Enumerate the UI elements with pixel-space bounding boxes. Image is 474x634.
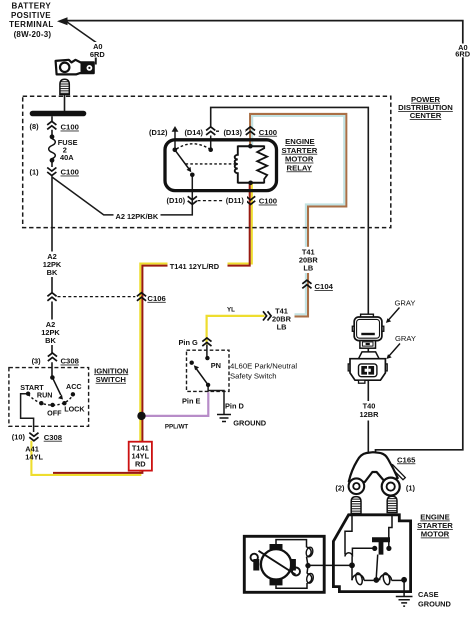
svg-text:C100: C100	[61, 168, 79, 177]
relay arm arrowhead	[187, 167, 192, 172]
svg-text:ENGINE: ENGINE	[285, 137, 314, 146]
battery terminal stud	[60, 79, 69, 94]
connector C100 pin 1 chevrons	[47, 168, 56, 176]
svg-text:PPL/WT: PPL/WT	[165, 424, 189, 431]
svg-text:LB: LB	[303, 263, 313, 272]
label (D11)	[223, 195, 248, 205]
relay coil bottom edge	[238, 182, 264, 184]
svg-text:SWITCH: SWITCH	[96, 375, 127, 384]
field coil wire mid	[307, 557, 309, 574]
solenoid contact feed	[352, 548, 373, 562]
PN switch arm	[197, 369, 209, 385]
brush hook lower-right	[292, 568, 300, 576]
power distribution center dashed box	[23, 96, 391, 227]
label A2 12PK/BK	[114, 211, 161, 221]
label T41 20BR LB upper	[296, 247, 321, 273]
arrow battery callout	[57, 17, 68, 25]
svg-text:C308: C308	[44, 433, 63, 442]
label (10) C308	[12, 432, 63, 441]
wire T40 12BR	[211, 107, 369, 456]
relay coil loops left branch	[235, 146, 238, 184]
svg-text:C308: C308	[61, 357, 80, 366]
ground symbol case	[396, 597, 413, 607]
battery clamp icon	[56, 58, 96, 75]
wire motor to solenoid	[308, 564, 352, 566]
relay switch arm	[175, 150, 189, 169]
node PN top contact	[205, 356, 209, 360]
svg-text:LB: LB	[277, 322, 287, 331]
svg-text:(1): (1)	[30, 167, 40, 176]
svg-text:FUSE: FUSE	[58, 138, 78, 147]
label A2 12PK BK lower	[41, 320, 61, 346]
gray connector lower	[348, 352, 387, 383]
connector C100 D13 chevrons	[246, 127, 255, 135]
svg-text:(10): (10)	[12, 432, 26, 441]
solenoid right stud feed	[389, 515, 392, 547]
wire T41 LB light blue stripe upper	[252, 116, 344, 248]
svg-text:BK: BK	[47, 268, 58, 277]
motor diagonal shaft	[259, 551, 296, 575]
svg-text:A2 12PK/BK: A2 12PK/BK	[116, 212, 159, 221]
svg-text:40A: 40A	[60, 153, 74, 162]
solenoid winding left	[352, 574, 364, 580]
wire relay D14 pin to contact	[210, 136, 212, 150]
svg-text:C104: C104	[315, 282, 334, 291]
node solenoid winding center	[373, 577, 379, 583]
field coil lower pair	[307, 574, 312, 583]
case ground wire	[403, 580, 405, 596]
relay dashed actuator link	[186, 163, 236, 165]
svg-text:BK: BK	[45, 336, 56, 345]
motor bottom return wire	[276, 583, 307, 588]
node solenoid left contact	[372, 546, 377, 551]
label A0 6RD battery	[87, 42, 107, 59]
svg-text:POSITIVE: POSITIVE	[11, 11, 51, 20]
label battery positive terminal	[9, 2, 54, 39]
svg-text:STARTER: STARTER	[282, 146, 318, 155]
svg-text:6RD: 6RD	[455, 49, 470, 58]
node arm contact	[190, 173, 195, 178]
solenoid bump coil	[345, 553, 352, 557]
wire T141 12YL/RD red stripe	[53, 183, 250, 473]
label (1) C100	[30, 167, 79, 176]
connector C100 D11 chevrons	[246, 196, 255, 204]
wire A0 diagonal to battery clamp	[67, 22, 97, 65]
svg-text:14YL: 14YL	[25, 452, 43, 461]
node solenoid right contact	[386, 546, 391, 551]
label FUSE 2 40A	[58, 138, 78, 162]
solenoid winding right	[380, 574, 392, 580]
motor housing	[244, 536, 324, 592]
wire T141 12YL/RD yellow stripe	[31, 183, 251, 475]
svg-text:(D14): (D14)	[184, 128, 203, 137]
svg-text:GROUND: GROUND	[233, 418, 267, 427]
node fuse bottom	[50, 158, 55, 163]
solenoid T plunger	[372, 537, 390, 554]
ignition arm arrowhead	[58, 395, 63, 400]
arrow GRAY upper	[386, 308, 400, 323]
node solenoid junction	[349, 562, 355, 568]
node ignition common	[50, 375, 55, 380]
svg-text:(3): (3)	[32, 356, 42, 365]
starter stud right	[387, 496, 397, 512]
label (3) C308	[32, 356, 80, 365]
wire A0 6RD top run	[66, 21, 463, 457]
node D14 contact	[208, 147, 213, 152]
svg-text:RD: RD	[135, 460, 146, 469]
label (8) C100	[30, 122, 79, 131]
node START	[26, 392, 30, 396]
svg-text:Pin D: Pin D	[225, 402, 245, 411]
node fuse top	[50, 134, 55, 139]
brush hook upper-left	[251, 554, 258, 561]
svg-text:T141 12YL/RD: T141 12YL/RD	[170, 262, 220, 271]
wire Pin E purple link inside box	[207, 385, 209, 392]
wire PPL/WT purple	[142, 392, 209, 416]
svg-text:Pin E: Pin E	[182, 397, 201, 406]
svg-text:(D11): (D11)	[226, 196, 245, 205]
svg-text:RELAY: RELAY	[287, 163, 312, 172]
connector C308 pin 3 chevrons	[48, 353, 57, 361]
wire YL yellow to Pin G	[207, 316, 265, 345]
node D12 contact	[173, 148, 178, 153]
wire Pin D to ground	[208, 391, 224, 415]
ground symbol PN	[217, 415, 231, 422]
svg-text:CASE: CASE	[418, 590, 439, 599]
label (D13)	[221, 127, 246, 137]
svg-text:Pin G: Pin G	[179, 338, 199, 347]
bus bar	[33, 111, 84, 117]
PN arm arrowhead	[194, 365, 199, 370]
label 4L60E Park/Neutral Safety Switch	[230, 362, 297, 381]
starter stud left	[351, 497, 361, 514]
connector C104 chevrons	[302, 280, 311, 288]
solenoid coil run	[351, 565, 353, 580]
node T141 PPL junction	[137, 412, 145, 420]
connector C165 boot	[349, 452, 406, 495]
connector C106 chevrons on T141	[137, 293, 146, 301]
wire A2 12PK/BK diagonal to relay D10	[52, 175, 192, 215]
connector C308 pin 10 chevrons	[29, 433, 38, 441]
brush top	[270, 544, 283, 550]
svg-text:Safety Switch: Safety Switch	[230, 372, 277, 381]
label ignition switch	[94, 366, 129, 384]
connector C100 D14 chevrons	[206, 127, 215, 135]
motor armature circle	[261, 549, 291, 579]
node PN left contact	[190, 361, 194, 365]
svg-text:MOTOR: MOTOR	[285, 155, 314, 164]
label power distribution center	[398, 95, 453, 120]
dashed C106 link	[58, 296, 136, 298]
brush right	[290, 559, 296, 571]
label A0 6RD right	[454, 43, 473, 59]
svg-text:MOTOR: MOTOR	[421, 530, 450, 539]
relay resistor zigzag right branch	[257, 146, 267, 184]
svg-text:YL: YL	[227, 307, 235, 314]
svg-text:PN: PN	[211, 361, 221, 370]
ignition dashed arc	[28, 394, 73, 405]
label engine starter motor relay	[282, 137, 318, 172]
solenoid plunger stem wire	[376, 555, 377, 578]
svg-text:(D10): (D10)	[167, 196, 186, 205]
svg-text:CENTER: CENTER	[410, 111, 442, 120]
node coil top D13	[248, 144, 253, 149]
arrow GRAY lower	[386, 344, 400, 360]
label case ground	[418, 590, 452, 608]
node field junction	[305, 563, 310, 568]
label engine starter motor	[417, 513, 453, 539]
wire T41 20BR brown stripe upper	[250, 114, 346, 248]
park/neutral switch dashed box	[187, 350, 230, 391]
ignition switch arm	[52, 378, 60, 396]
wire bar to fuse and down to ignition switch	[51, 116, 53, 377]
fuse 2 40A squiggle	[49, 139, 56, 159]
field coil upper pair	[307, 547, 312, 556]
svg-text:12BR: 12BR	[360, 410, 380, 419]
label A41 14YL	[25, 445, 43, 462]
gray connector upper	[352, 314, 384, 348]
dashed C100 top link	[216, 130, 246, 132]
dashed C100 bottom link	[198, 200, 246, 202]
brush left	[253, 559, 259, 571]
label T41 20BR LB mid-right	[357, 401, 381, 421]
node PN pivot	[206, 383, 210, 387]
connector chevron on YL wire	[263, 311, 271, 320]
wire ignition START to C308 pin 10	[21, 394, 34, 432]
relay coil top edge	[238, 145, 264, 147]
node solenoid ground point	[401, 577, 407, 583]
wire Pin G black below chevron	[206, 345, 208, 358]
svg-text:RUN: RUN	[37, 391, 53, 400]
node ACC	[71, 392, 75, 396]
wire relay D12 pin	[174, 131, 176, 150]
relay box U1	[165, 140, 277, 191]
node coil bottom D11	[248, 181, 253, 186]
svg-text:C106: C106	[147, 294, 165, 303]
label T141 12YL/RD	[168, 261, 228, 271]
label A2 12PK BK upper	[42, 252, 62, 278]
svg-text:(8): (8)	[30, 122, 40, 131]
svg-text:(D12): (D12)	[149, 128, 168, 137]
svg-text:C165: C165	[397, 455, 416, 464]
label box T141 14YL RD	[129, 442, 152, 471]
node OFF	[50, 403, 54, 407]
wire T41 LB light blue stripe lower	[295, 273, 306, 315]
ignition switch dashed box	[9, 368, 89, 427]
solenoid housing	[333, 515, 410, 592]
node RUN	[39, 401, 43, 405]
relay dashed throw curve	[177, 144, 210, 149]
svg-text:(2): (2)	[335, 483, 345, 492]
svg-text:C100: C100	[259, 128, 277, 137]
svg-text:(8W-20-3): (8W-20-3)	[14, 30, 52, 39]
brush bottom	[270, 579, 283, 585]
svg-text:(D13): (D13)	[223, 128, 242, 137]
svg-text:C100: C100	[61, 123, 79, 132]
solenoid stud feed staircase	[345, 515, 352, 555]
svg-text:(1): (1)	[406, 483, 416, 492]
node LOCK	[62, 401, 66, 405]
connector C100 pin 8 chevrons	[47, 121, 56, 129]
motor top feed wire	[276, 540, 307, 548]
svg-text:6RD: 6RD	[90, 50, 105, 59]
svg-text:OFF: OFF	[47, 409, 62, 418]
label T41 20BR LB lower	[272, 306, 292, 331]
wire T41 20BR brown stripe lower	[295, 273, 309, 317]
svg-text:LOCK: LOCK	[64, 404, 85, 413]
svg-text:4L60E Park/Neutral: 4L60E Park/Neutral	[230, 362, 297, 371]
connector C100 D10 chevrons	[188, 196, 197, 204]
connector Pin G chevrons	[202, 338, 211, 346]
svg-text:GRAY: GRAY	[395, 298, 416, 307]
svg-text:BATTERY: BATTERY	[11, 2, 51, 11]
wire battery stud to bus bar	[64, 94, 66, 111]
svg-text:TERMINAL: TERMINAL	[9, 20, 54, 29]
svg-text:GRAY: GRAY	[395, 334, 416, 343]
arrow D12 up	[172, 126, 179, 132]
connector C106 chevrons on A2	[47, 293, 56, 301]
svg-text:ACC: ACC	[66, 382, 82, 391]
svg-text:C100: C100	[259, 197, 277, 206]
svg-text:GROUND: GROUND	[418, 599, 452, 608]
